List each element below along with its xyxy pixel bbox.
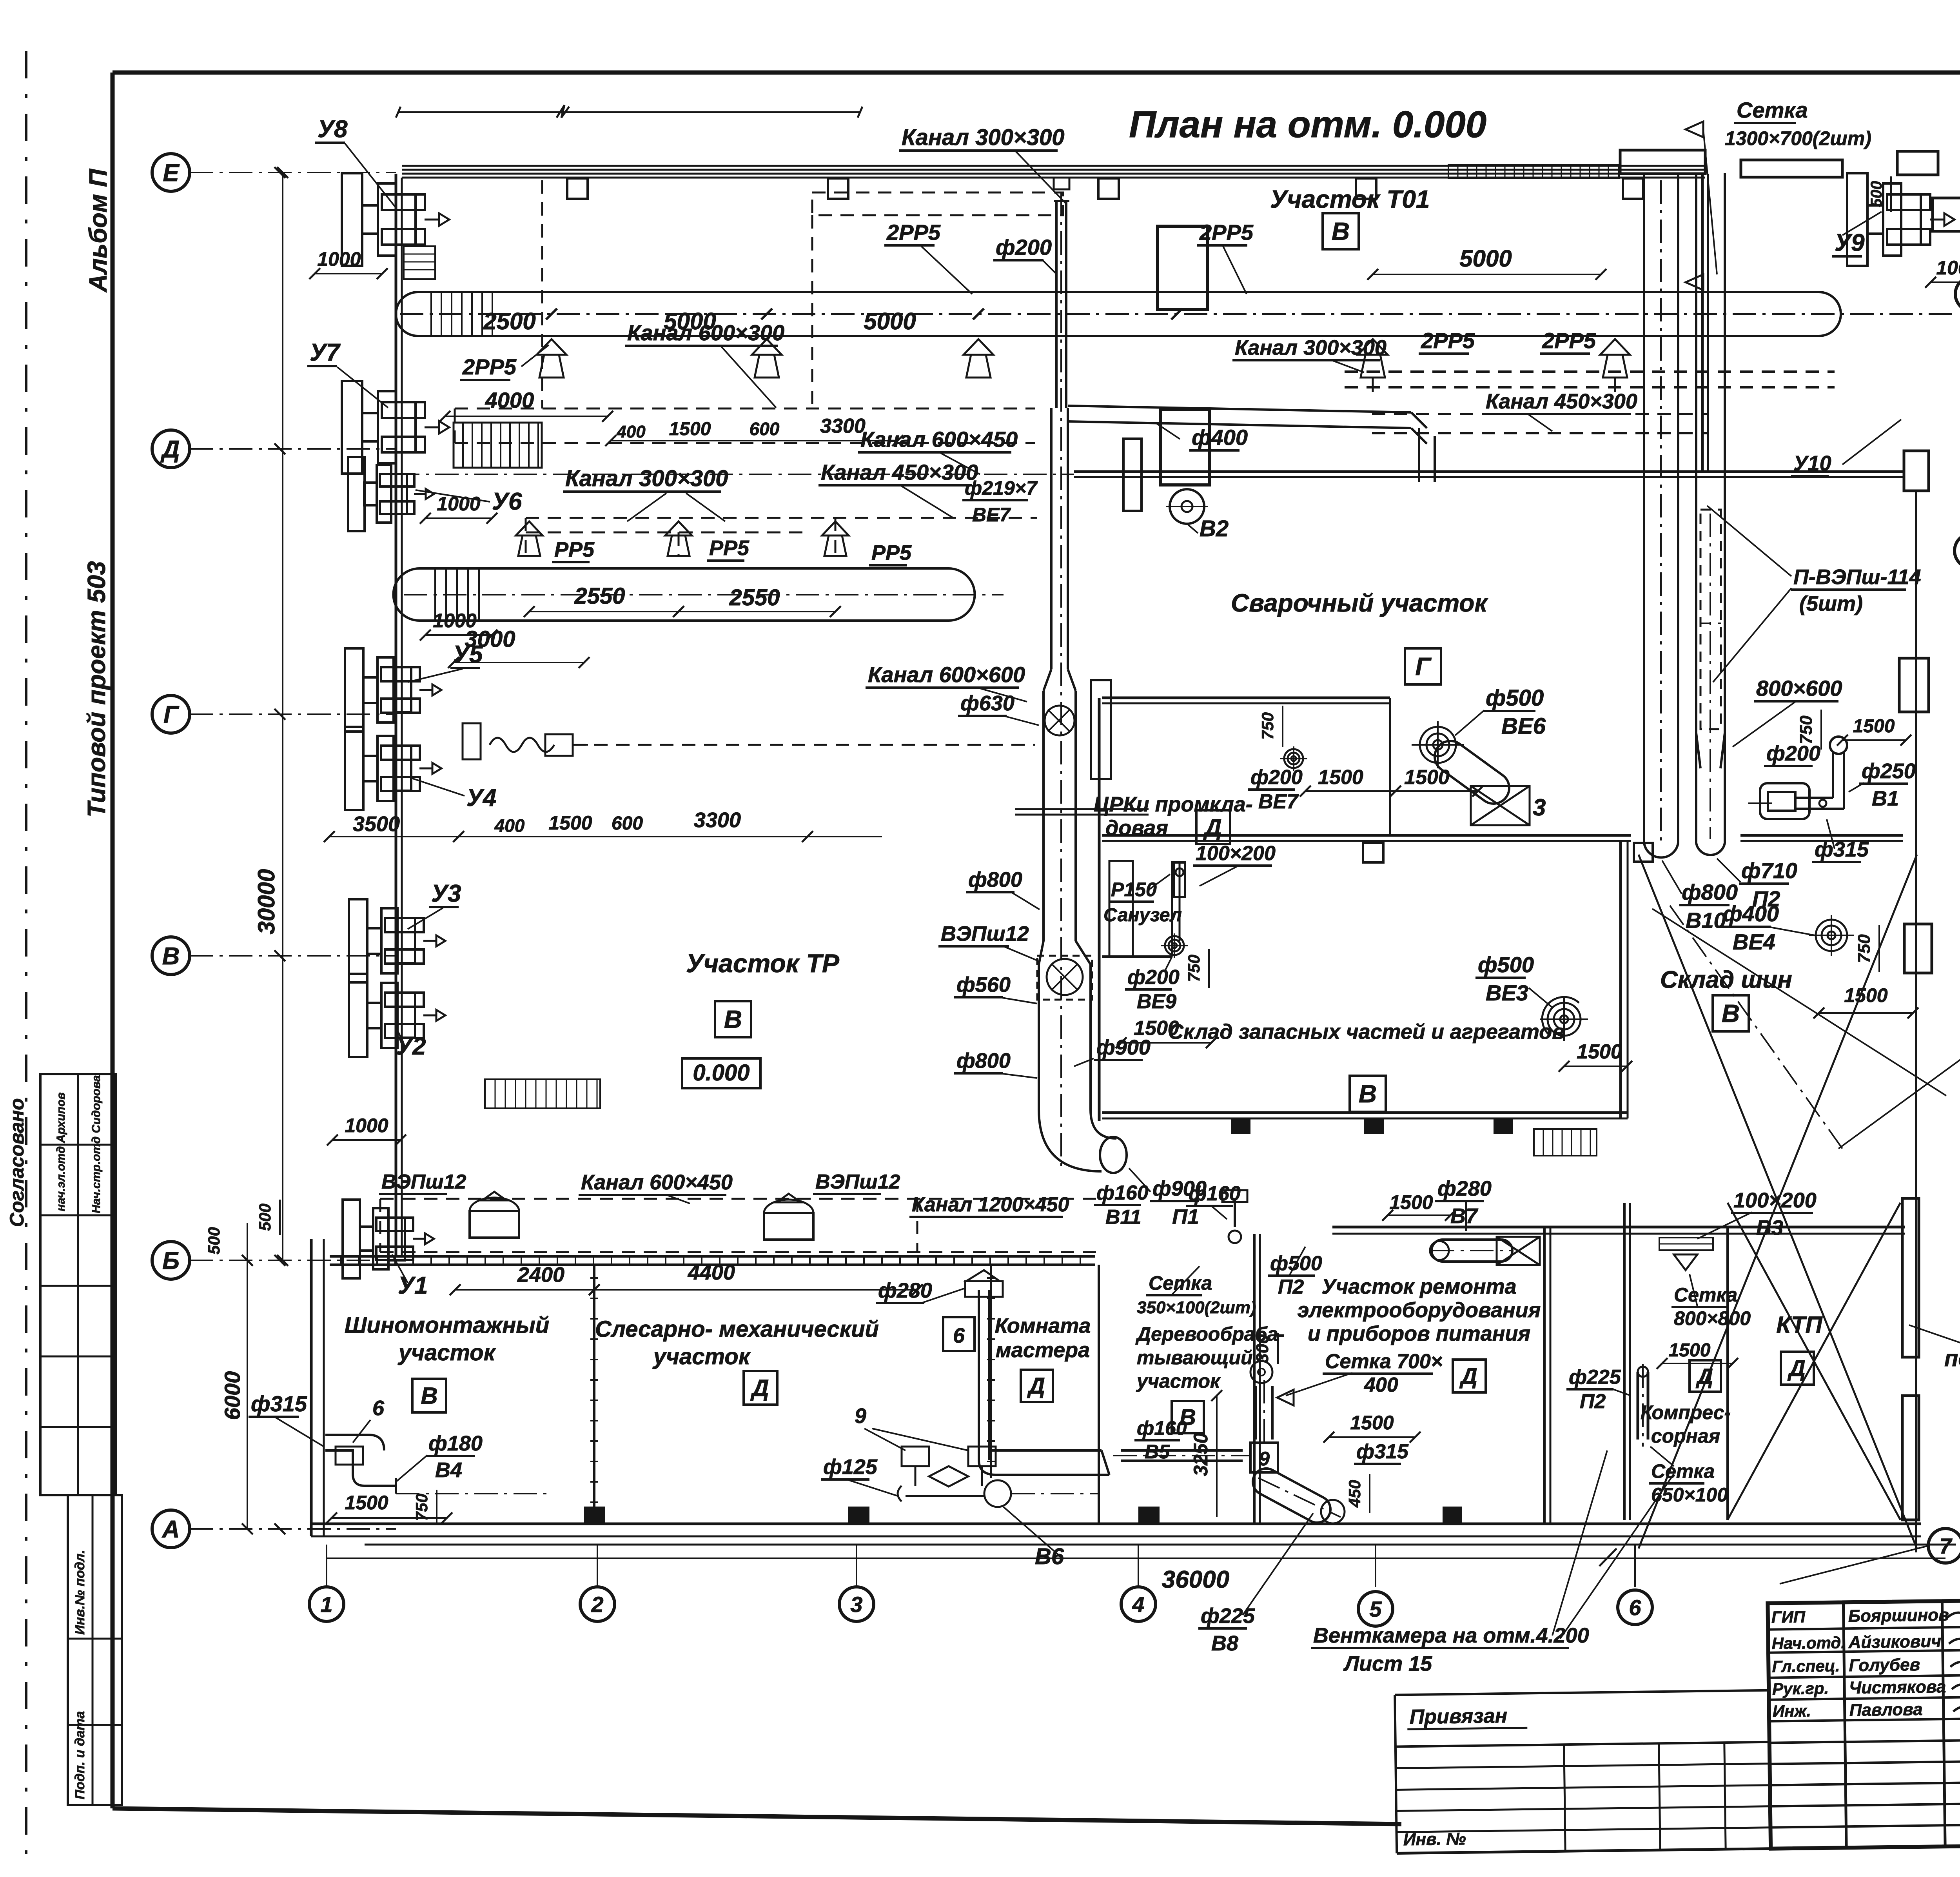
svg-text:ВЕ7: ВЕ7	[972, 504, 1011, 526]
svg-text:В: В	[162, 943, 180, 970]
svg-text:У1: У1	[398, 1272, 428, 1299]
room Kompr box D	[1690, 1360, 1721, 1392]
svg-text:План на отм. 0.000: План на отм. 0.000	[1129, 103, 1486, 145]
svg-text:тывающий: тывающий	[1137, 1347, 1253, 1369]
plan3 axis E	[1955, 534, 1960, 568]
svg-text:Д: Д	[750, 1375, 769, 1401]
svg-text:800×600: 800×600	[1756, 676, 1842, 701]
svg-text:В7: В7	[1450, 1204, 1479, 1228]
svg-text:ВЭПш12: ВЭПш12	[941, 922, 1029, 946]
svg-text:КТП: КТП	[1776, 1312, 1823, 1338]
svg-text:400: 400	[1364, 1374, 1398, 1396]
svg-text:3: 3	[850, 1592, 862, 1617]
wall right wing east	[1915, 491, 1917, 1552]
svg-text:5: 5	[1369, 1597, 1382, 1621]
top dim line	[398, 111, 860, 113]
wall kompr left	[1623, 1203, 1626, 1520]
svg-text:В8: В8	[1211, 1632, 1238, 1655]
svg-text:1500: 1500	[1404, 766, 1450, 789]
room CRK box D	[1196, 810, 1230, 844]
diagonal dashdot sklad shin	[1670, 906, 1842, 1149]
duct f280 k	[978, 1290, 980, 1460]
titleblock col	[1843, 1602, 1846, 1848]
axis line &#1040;	[190, 1528, 396, 1530]
svg-text:В: В	[1722, 999, 1740, 1027]
svg-text:сорная: сорная	[1651, 1425, 1720, 1447]
axis bubble &#1043;	[152, 695, 190, 733]
svg-text:Типовой проект 503: Типовой проект 503	[82, 561, 111, 817]
svg-text:750: 750	[412, 1494, 431, 1521]
titleblock row	[1769, 1761, 1960, 1764]
svg-text:В4: В4	[435, 1458, 462, 1482]
svg-text:ф315: ф315	[1356, 1440, 1409, 1463]
channel G dashed	[572, 744, 1035, 746]
svg-text:Инв.№ подл.: Инв.№ подл.	[73, 1550, 87, 1635]
axis bubble 4	[1121, 1587, 1156, 1621]
titleblock row	[1769, 1696, 1960, 1700]
svg-text:ВЕ7: ВЕ7	[1258, 790, 1299, 813]
pump group B6	[902, 1447, 929, 1466]
wall right exterior upper	[1701, 174, 1704, 472]
wall crk top	[1102, 697, 1390, 699]
deflector 2PP5 below duct	[752, 339, 782, 355]
svg-text:6: 6	[953, 1324, 965, 1347]
svg-text:ЦРКи промкла-: ЦРКи промкла-	[1094, 793, 1253, 816]
titleblock row	[1768, 1626, 1960, 1630]
svg-text:ф280: ф280	[878, 1279, 932, 1302]
svg-text:потолок на отм. 4.200: потолок на отм. 4.200	[1944, 1346, 1960, 1371]
svg-text:3300: 3300	[820, 415, 866, 437]
channel Kanal300x300 top dashed	[812, 192, 1063, 215]
svg-text:Сетка 700×: Сетка 700×	[1325, 1350, 1443, 1373]
svg-text:1500: 1500	[1318, 766, 1363, 789]
wall annex top row B (brick)	[330, 1255, 1095, 1258]
svg-text:Согласовано: Согласовано	[6, 1098, 28, 1227]
plan3 axis Zh	[1955, 277, 1960, 311]
elbow B4	[325, 1450, 396, 1486]
svg-text:участок: участок	[397, 1340, 496, 1365]
fan BE7	[1284, 749, 1303, 768]
svg-text:ф400: ф400	[1723, 901, 1779, 926]
duct B8 slanted	[1253, 1469, 1330, 1523]
duct C riser rect 2	[1091, 680, 1111, 779]
unit U5	[345, 648, 363, 732]
svg-text:Канал 300×300: Канал 300×300	[1235, 336, 1387, 359]
unit U9	[1847, 173, 1867, 266]
channel right dashed 1	[1345, 370, 1835, 373]
svg-text:Нач.отд.: Нач.отд.	[1771, 1633, 1846, 1652]
svg-text:Привязан: Привязан	[1410, 1705, 1508, 1728]
wall kompr mid	[1726, 1227, 1729, 1520]
svg-text:2РР5: 2РР5	[1542, 328, 1596, 353]
duct uchrem vert	[1255, 1386, 1257, 1440]
sheet inner border frame	[113, 71, 1960, 75]
axis bubble 3	[839, 1587, 874, 1621]
svg-text:Бояршинов: Бояршинов	[1848, 1605, 1949, 1626]
svg-text:П-ВЭПш-114: П-ВЭПш-114	[1793, 565, 1921, 589]
duct B 0	[419, 567, 949, 570]
svg-text:9: 9	[1259, 1448, 1270, 1470]
svg-text:750: 750	[1258, 712, 1277, 740]
svg-text:800×800: 800×800	[1674, 1307, 1751, 1329]
svg-text:ф315: ф315	[251, 1391, 307, 1416]
svg-text:Д: Д	[1027, 1373, 1045, 1399]
axis bubble &#1041;	[152, 1242, 190, 1279]
svg-text:В: В	[1332, 217, 1350, 245]
wall partition x2528	[990, 1265, 992, 1478]
svg-text:600: 600	[612, 813, 643, 834]
channel right dashed 2	[1372, 413, 1709, 415]
svg-text:Шиномонтажный: Шиномонтажный	[345, 1312, 550, 1338]
svg-text:Д: Д	[160, 436, 180, 463]
stair hatch sklad	[1534, 1129, 1597, 1156]
svg-text:1000: 1000	[345, 1115, 388, 1136]
hatch louver row D	[454, 423, 542, 468]
svg-text:А: А	[162, 1516, 180, 1543]
svg-text:Гл.спец.: Гл.спец.	[1772, 1656, 1840, 1676]
titleblock outer	[1768, 1593, 1960, 1849]
wall partition x1516	[593, 1265, 595, 1524]
svg-text:Канал 1200×450: Канал 1200×450	[912, 1193, 1069, 1216]
wall partition x2803	[1098, 1265, 1100, 1524]
svg-text:4400: 4400	[688, 1261, 735, 1284]
svg-text:Сетка: Сетка	[1674, 1284, 1737, 1306]
svg-text:нач.эл.отд Архипов: нач.эл.отд Архипов	[54, 1092, 67, 1211]
svg-text:750: 750	[1797, 715, 1816, 744]
svg-text:Д: Д	[1696, 1364, 1713, 1389]
vent kompr	[1659, 1238, 1713, 1250]
svg-text:Павлова: Павлова	[1849, 1700, 1923, 1720]
svg-text:1500: 1500	[669, 419, 711, 439]
svg-text:РР5: РР5	[554, 538, 595, 561]
svg-text:Сетка: Сетка	[1737, 98, 1808, 122]
titleblock row	[1768, 1649, 1960, 1653]
svg-text:В: В	[724, 1005, 742, 1033]
wall uchrem right	[1543, 1227, 1546, 1524]
xbox BE6	[1471, 786, 1530, 825]
svg-text:В: В	[421, 1383, 437, 1409]
svg-text:У5: У5	[453, 641, 483, 668]
svg-text:Е: Е	[163, 160, 180, 187]
svg-text:ВЕ3: ВЕ3	[1486, 980, 1528, 1005]
svg-text:2550: 2550	[574, 583, 625, 609]
titleblock col	[1942, 1601, 1945, 1846]
svg-text:РР5: РР5	[871, 541, 912, 565]
deflector 2PP5 below duct	[537, 339, 566, 355]
duct right pair 1	[1643, 173, 1645, 843]
svg-text:Айзикович: Айзикович	[1848, 1632, 1941, 1652]
unit U4	[345, 727, 363, 810]
unit U1	[343, 1200, 360, 1278]
room Komn box D	[1021, 1370, 1053, 1402]
svg-text:и приборов питания: и приборов питания	[1308, 1322, 1530, 1345]
fan BE3	[1548, 1003, 1581, 1036]
axis line &#1043;	[190, 713, 396, 715]
sheet bottom border (sloped)	[113, 1808, 1401, 1824]
room TR mark 0.000	[682, 1058, 760, 1088]
axis line &#1045;	[190, 172, 396, 173]
axis bubble &#1040;	[152, 1510, 190, 1548]
fan BE9	[1165, 936, 1184, 955]
svg-text:Участок ремонта: Участок ремонта	[1321, 1275, 1516, 1298]
svg-text:Д: Д	[1459, 1363, 1477, 1389]
svg-text:450: 450	[1345, 1480, 1364, 1508]
titleblock row	[1769, 1674, 1960, 1678]
duct C cross walkway	[1015, 808, 1149, 810]
svg-text:6: 6	[1629, 1595, 1641, 1620]
sheet outer left dash-dot margin line	[25, 51, 27, 1860]
svg-text:Канал 300×300: Канал 300×300	[902, 125, 1065, 150]
svg-text:П1: П1	[1172, 1205, 1199, 1229]
wall crk right	[1389, 698, 1391, 835]
svg-text:ф500: ф500	[1478, 952, 1534, 977]
svg-text:Канал 450×300: Канал 450×300	[1486, 390, 1637, 413]
svg-text:7: 7	[1939, 1534, 1953, 1558]
svg-text:750: 750	[1185, 955, 1203, 982]
svg-text:участок: участок	[1136, 1370, 1221, 1392]
svg-text:ф225: ф225	[1569, 1366, 1621, 1389]
svg-text:Подп. и дата: Подп. и дата	[73, 1711, 87, 1799]
svg-text:3500: 3500	[353, 812, 400, 836]
svg-text:В: В	[1359, 1080, 1377, 1108]
wall row E far right block	[1741, 160, 1842, 177]
titleblock small grid	[1396, 1764, 1770, 1768]
svg-text:У9: У9	[1835, 229, 1865, 256]
svg-text:5000: 5000	[1459, 245, 1512, 272]
axis line 7 leader	[1780, 1546, 1928, 1584]
wall row E hatch segment	[1448, 165, 1619, 178]
svg-text:0.000: 0.000	[693, 1060, 750, 1086]
axis riser	[1634, 1545, 1636, 1587]
duct f400 branch	[1068, 406, 1411, 412]
room KTP box D	[1781, 1352, 1814, 1385]
svg-text:2500: 2500	[483, 308, 535, 334]
svg-text:Лист 15: Лист 15	[1343, 1652, 1432, 1676]
svg-text:ф800: ф800	[956, 1049, 1011, 1073]
svg-text:Канал 600×450: Канал 600×450	[860, 427, 1018, 452]
duct B7 horis	[1432, 1240, 1512, 1262]
svg-text:Голубев: Голубев	[1849, 1655, 1920, 1675]
svg-text:В11: В11	[1105, 1206, 1142, 1229]
channel annex dashed	[380, 1198, 1098, 1200]
svg-text:У8: У8	[318, 116, 348, 143]
svg-text:Г: Г	[1415, 652, 1432, 681]
svg-text:ф315: ф315	[1815, 838, 1869, 861]
duct C fan 2	[1047, 959, 1083, 995]
svg-text:У6: У6	[492, 488, 522, 515]
riser sanuzel	[1174, 862, 1185, 897]
room Derevo box V	[1172, 1401, 1204, 1433]
deflector PP5	[665, 521, 692, 536]
svg-text:ф500: ф500	[1486, 685, 1544, 711]
wall mid horizontal y2131	[1102, 834, 1631, 837]
label 9 box uchrem	[1250, 1443, 1278, 1472]
margin approval table	[40, 1074, 116, 1495]
svg-text:Инв. №: Инв. №	[1403, 1829, 1466, 1849]
wall skл left	[1098, 698, 1101, 1121]
wall sklad right	[1619, 841, 1622, 1118]
axis bubble 1	[309, 1587, 344, 1621]
svg-text:Чистякова: Чистякова	[1849, 1677, 1946, 1697]
svg-text:1: 1	[320, 1592, 332, 1617]
svg-text:ф250: ф250	[1862, 759, 1916, 783]
duct C riser rect 1	[1123, 439, 1142, 511]
svg-text:ВЕ6: ВЕ6	[1501, 713, 1546, 739]
small elbow top uchrem	[1234, 1200, 1236, 1227]
svg-text:ф160: ф160	[1096, 1182, 1149, 1204]
svg-text:1500: 1500	[548, 812, 592, 834]
svg-text:2РР5: 2РР5	[886, 220, 941, 245]
titleblock row	[1769, 1718, 1960, 1721]
wall annex left	[310, 1239, 313, 1536]
deflector PP5	[516, 521, 543, 536]
duct C fan 1	[1045, 706, 1074, 735]
svg-text:2: 2	[591, 1592, 603, 1617]
equipment block top 2	[1160, 410, 1210, 485]
svg-text:ф200: ф200	[1250, 766, 1303, 789]
svg-text:6: 6	[372, 1396, 385, 1420]
duct kompr vert	[1637, 1372, 1639, 1440]
axis line &#1042;	[190, 955, 396, 957]
svg-text:(5шт): (5шт)	[1799, 592, 1863, 615]
svg-text:Участок Т01: Участок Т01	[1270, 185, 1430, 213]
channel vertical dashes top	[811, 215, 813, 408]
svg-text:Альбом П: Альбом П	[84, 168, 112, 293]
svg-text:ф280: ф280	[1437, 1177, 1492, 1200]
deflector 2PP5 up r1	[1358, 339, 1388, 355]
svg-text:2550: 2550	[729, 585, 780, 610]
svg-text:100×200: 100×200	[1196, 842, 1276, 865]
diagonal cross KTP	[1728, 1203, 1900, 1520]
svg-text:Канал 600×300: Канал 600×300	[627, 320, 784, 345]
titleblock row	[1769, 1739, 1960, 1743]
svg-text:ф630: ф630	[960, 692, 1014, 715]
svg-text:ф125: ф125	[823, 1455, 878, 1479]
duct right inner units dashed	[1700, 510, 1721, 729]
axis riser	[1138, 1545, 1139, 1587]
svg-text:Склад шин: Склад шин	[1660, 966, 1792, 993]
dim 30000 vertical	[282, 172, 283, 1260]
wall left exterior upper	[395, 174, 397, 1256]
duct C vertical main	[1055, 201, 1058, 408]
svg-text:РР5: РР5	[709, 536, 750, 560]
diagonal cross sklad shin	[1639, 855, 1917, 1548]
svg-text:6000: 6000	[220, 1371, 245, 1420]
wall row E right end block	[1620, 150, 1705, 174]
wall annex bottom row A	[311, 1523, 1921, 1525]
duct A centerline	[400, 313, 1954, 315]
svg-text:Сетка: Сетка	[1651, 1460, 1715, 1482]
svg-text:В1: В1	[1872, 787, 1899, 810]
svg-text:Канал 300×300: Канал 300×300	[565, 466, 728, 491]
margin inventory table	[68, 1495, 122, 1805]
svg-text:Венткамера на отм.4.200: Венткамера на отм.4.200	[1313, 1624, 1589, 1647]
titleblock row	[1770, 1782, 1960, 1785]
svg-text:участок: участок	[652, 1344, 751, 1369]
wall row E band	[402, 165, 1705, 167]
duct C top cap	[1054, 200, 1069, 202]
svg-text:ф800: ф800	[1682, 880, 1738, 904]
svg-text:300: 300	[1253, 1334, 1272, 1363]
duct right pair 2	[1695, 173, 1697, 843]
svg-text:1500: 1500	[1669, 1340, 1711, 1361]
label 6 box k	[943, 1317, 975, 1351]
titleblock row	[1770, 1803, 1960, 1806]
svg-text:ВЕ9: ВЕ9	[1137, 990, 1176, 1013]
svg-text:Инж.: Инж.	[1773, 1701, 1811, 1720]
column ticks sklad bottom	[1231, 1118, 1250, 1134]
svg-text:ф560: ф560	[956, 973, 1011, 997]
room Shino box V	[412, 1379, 446, 1412]
fan B2	[1170, 489, 1204, 524]
svg-text:ф219×7: ф219×7	[965, 477, 1038, 499]
svg-text:350×100(2шт): 350×100(2шт)	[1137, 1298, 1256, 1317]
dim 6000 vertical annex	[247, 1260, 248, 1529]
svg-text:ф180: ф180	[428, 1432, 483, 1455]
axis bubble 2	[580, 1587, 615, 1621]
svg-text:У4: У4	[466, 784, 496, 811]
svg-text:Канал 600×600: Канал 600×600	[868, 662, 1025, 687]
wall row D	[1074, 470, 1905, 473]
svg-text:4: 4	[1132, 1592, 1144, 1617]
svg-text:1500: 1500	[345, 1492, 388, 1514]
axis bubble 6	[1618, 1590, 1652, 1625]
svg-text:2РР5: 2РР5	[462, 354, 517, 379]
axis bubble 5	[1358, 1592, 1393, 1626]
svg-text:Канал 450×300: Канал 450×300	[821, 460, 978, 485]
svg-text:ф710: ф710	[1741, 858, 1797, 883]
svg-text:1300×700(2шт): 1300×700(2шт)	[1725, 127, 1871, 149]
axis dash row D left	[396, 474, 1074, 475]
fan BE4	[1816, 920, 1847, 951]
wall ktp right piers	[1902, 1198, 1919, 1357]
svg-text:Слесарно- механический: Слесарно- механический	[595, 1316, 879, 1342]
axis line &#1044;	[190, 448, 396, 450]
axis bubble 7	[1928, 1528, 1960, 1563]
axis riser	[326, 1545, 327, 1587]
wall annex baseline	[365, 1544, 1956, 1546]
svg-text:1000: 1000	[433, 610, 476, 632]
svg-text:30000: 30000	[253, 869, 279, 935]
svg-text:П2: П2	[1278, 1276, 1304, 1298]
svg-text:3250: 3250	[1190, 1432, 1212, 1476]
svg-text:ВЭПш12: ВЭПш12	[815, 1171, 900, 1193]
svg-text:ф200: ф200	[1127, 966, 1180, 989]
channel upper mid dashed	[455, 408, 1035, 410]
axis bubble &#1045;	[152, 154, 190, 191]
column blocks annex bottom	[584, 1507, 605, 1524]
fan circle uchrem	[1250, 1361, 1272, 1383]
svg-text:2РР5: 2РР5	[1421, 328, 1475, 353]
svg-text:У7: У7	[310, 339, 341, 366]
svg-text:Санузел: Санузел	[1103, 905, 1182, 926]
svg-text:Д: Д	[1203, 814, 1221, 840]
svg-text:Г: Г	[163, 701, 180, 728]
diagonal ventkamera16 long	[1652, 909, 1946, 1096]
svg-text:1500: 1500	[1844, 984, 1887, 1006]
room TR box V	[715, 1001, 751, 1037]
elbow B1	[1760, 783, 1809, 819]
deflector 2PP5 up r2	[1600, 339, 1630, 355]
svg-text:Компрес-: Компрес-	[1641, 1401, 1731, 1423]
svg-text:1500: 1500	[1350, 1412, 1394, 1434]
hatch block top-left	[404, 246, 435, 279]
svg-text:Рук.гр.: Рук.гр.	[1772, 1679, 1829, 1698]
wall annex right rooms top	[1332, 1226, 1905, 1229]
axis riser	[856, 1545, 857, 1587]
svg-text:500: 500	[205, 1227, 223, 1254]
svg-text:1500: 1500	[1853, 716, 1895, 737]
